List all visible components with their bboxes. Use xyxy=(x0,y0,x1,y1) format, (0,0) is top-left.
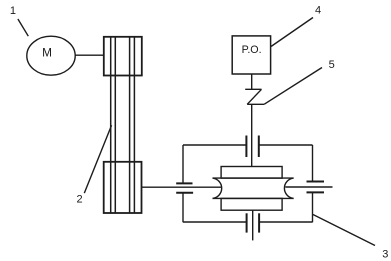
svg-text:3: 3 xyxy=(382,248,388,260)
small pulley (driver) xyxy=(104,37,142,76)
coupling lower bar xyxy=(247,103,264,105)
belt line c xyxy=(129,37,131,213)
large pulley (driven) xyxy=(104,162,142,213)
svg-text:P.O.: P.O. xyxy=(242,44,262,56)
leader line for label 2 (belt drive) xyxy=(84,125,111,193)
gearbox housing bottom line right part xyxy=(259,221,312,223)
svg-text:2: 2 xyxy=(76,193,82,205)
belt line a xyxy=(110,37,112,213)
svg-text:5: 5 xyxy=(329,59,335,71)
worm wheel rim top line xyxy=(213,177,294,179)
gearbox housing left wall upper part xyxy=(182,145,184,183)
belt line b xyxy=(114,37,116,213)
bottom bearing plates of vertical output shaft xyxy=(247,213,260,232)
gearbox housing bottom line left part xyxy=(183,221,247,223)
leader line for label 5 xyxy=(264,68,322,105)
vertical shaft below worm wheel xyxy=(252,210,254,240)
left bearing plates of input shaft xyxy=(176,183,193,192)
worm wheel rim bottom line xyxy=(213,197,294,199)
P.O. box (item 4) xyxy=(232,36,270,74)
gearbox housing left wall lower part xyxy=(182,193,184,223)
worm wheel hub lower rectangle xyxy=(221,198,282,210)
belt line d xyxy=(133,37,135,213)
svg-text:1: 1 xyxy=(10,5,16,17)
input shaft from large pulley into gearbox xyxy=(142,186,222,188)
coupling diagonal xyxy=(247,89,261,104)
gearbox housing top line right part xyxy=(259,144,313,146)
svg-text:4: 4 xyxy=(315,4,321,16)
right bearing plates of output shaft xyxy=(307,182,325,193)
shaft from P.O. box down to coupling xyxy=(251,74,253,89)
shaft from coupling to gearbox worm xyxy=(251,104,253,166)
motor output shaft wire xyxy=(75,54,104,56)
svg-text:M: M xyxy=(42,46,52,60)
top bearing plates of worm shaft xyxy=(246,136,258,158)
gearbox housing right wall lower part xyxy=(312,192,314,222)
leader line for label 1 xyxy=(18,19,28,36)
gearbox housing top line left part xyxy=(183,144,246,146)
coupling (item 5) upper bar xyxy=(245,88,261,90)
leader line for label 4 xyxy=(271,18,313,47)
worm wheel rim right concave arc xyxy=(284,178,293,198)
worm wheel rim left concave arc xyxy=(213,178,222,198)
gearbox housing right wall upper part xyxy=(312,145,314,182)
worm wheel hub upper rectangle xyxy=(221,167,282,179)
output shaft to the right xyxy=(285,186,332,188)
motor M (item 1) xyxy=(27,36,75,75)
leader line for label 3 (gearbox) xyxy=(313,215,375,246)
